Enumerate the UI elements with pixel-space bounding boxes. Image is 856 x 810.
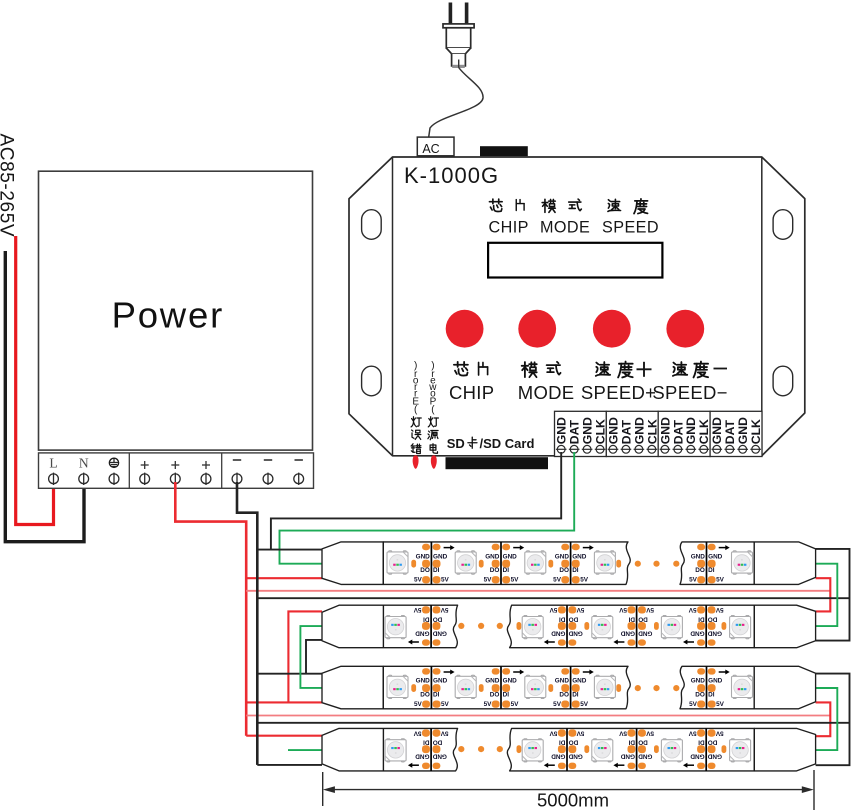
- svg-text:DAT: DAT: [568, 420, 582, 445]
- svg-text:GND: GND: [555, 417, 569, 444]
- LED strip row 1: [322, 542, 816, 585]
- LED strip row 3: [322, 666, 816, 709]
- svg-text:CHIP: CHIP: [489, 218, 529, 236]
- wire GND bus rows1-2: [257, 597, 849, 599]
- svg-text:SPEED−: SPEED−: [652, 382, 727, 403]
- SD card slot (black): [446, 457, 549, 469]
- svg-text:SPEED: SPEED: [602, 218, 659, 236]
- wire controller GND (black) to strip row 1: [271, 452, 561, 550]
- wire 5V bus rows3-4 to right end: [246, 715, 830, 717]
- svg-text:SPEED+: SPEED+: [581, 382, 656, 403]
- svg-text:L: L: [49, 456, 57, 471]
- svg-text:GND: GND: [658, 417, 672, 444]
- svg-text:GND: GND: [736, 417, 750, 444]
- svg-text:GND: GND: [632, 417, 646, 444]
- wire +5V feed from power supply (red): [175, 482, 246, 736]
- svg-text:K-1000G: K-1000G: [404, 163, 499, 188]
- red indicator LEDs: [413, 455, 419, 469]
- svg-text:/SD Card: /SD Card: [480, 436, 535, 451]
- wire data row4 DO stub (green): [288, 749, 322, 751]
- wire 5V right vertical rows1-2: [816, 578, 831, 611]
- svg-text:5000mm: 5000mm: [537, 790, 609, 810]
- wire GND row4 left: [257, 764, 322, 766]
- red push buttons: [446, 310, 484, 348]
- wire data row3 DO to row4 DI (right side, green): [816, 688, 838, 750]
- chinese header: chip mode speed: [489, 199, 502, 211]
- power cord from plug to AC inlet: [458, 60, 460, 68]
- wire 5V bus rows1-2 to right end: [246, 590, 830, 592]
- wire 5V row3 left: [246, 701, 322, 703]
- wire 5V row2 left: [288, 611, 322, 702]
- svg-text:MODE: MODE: [518, 382, 575, 403]
- LED strip row 4 (reversed): [322, 728, 816, 771]
- svg-text:GND: GND: [710, 417, 724, 444]
- wire AC live (red) from L terminal up left side: [16, 236, 54, 525]
- mains plug body: [443, 24, 474, 66]
- output terminal block 4 groups GND DAT GND CLK: [555, 411, 763, 456]
- dimension line 5000mm: [323, 770, 814, 810]
- svg-text:DAT: DAT: [723, 420, 737, 445]
- wire GND right loop rows3-4: [816, 674, 850, 766]
- wire GND row1 left: [257, 549, 322, 551]
- power screw terminals: [49, 473, 304, 485]
- label error LED (vertical): [411, 444, 421, 454]
- LED strip row 2 (reversed): [322, 605, 816, 648]
- svg-text:CLK: CLK: [645, 419, 659, 444]
- ground symbol (protective earth): [109, 458, 118, 467]
- wire GND row3 left: [257, 673, 322, 675]
- mains plug prong left: [449, 3, 453, 24]
- svg-text:DAT: DAT: [619, 420, 633, 445]
- svg-text:DAT: DAT: [671, 420, 685, 445]
- svg-text:AC: AC: [422, 142, 439, 156]
- svg-text:N: N: [79, 456, 89, 471]
- svg-text:MODE: MODE: [540, 218, 590, 236]
- power terminal strip: [39, 453, 314, 488]
- svg-text:CLK: CLK: [593, 419, 607, 444]
- wire AC neutral (black) from N terminal up far left: [5, 251, 84, 542]
- svg-text:GND: GND: [581, 417, 595, 444]
- wire GND bus rows3-4: [257, 722, 849, 724]
- wire 5V right vertical rows3-4: [816, 702, 831, 736]
- svg-text:Power: Power: [112, 295, 224, 336]
- wire controller DAT (green) to strip row 1 DI: [280, 452, 575, 564]
- op AC inlet box on controller: [417, 137, 454, 156]
- wire 5V row1 left: [246, 577, 322, 579]
- wire GND row2 left jog: [306, 640, 322, 674]
- chinese button labels: [454, 362, 468, 376]
- wire 5V row4 left: [246, 735, 322, 737]
- svg-text:CHIP: CHIP: [449, 382, 494, 403]
- svg-text:GND: GND: [684, 417, 698, 444]
- mains plug prong right: [465, 3, 469, 24]
- svg-text:CLK: CLK: [697, 419, 711, 444]
- wire data row2 DO to row3 DI (left side, green): [300, 626, 322, 688]
- mounting holes (ovals): [362, 210, 793, 396]
- wire data row1 DO to row2 DI (right side, green): [816, 564, 838, 626]
- svg-text:AC85-265V: AC85-265V: [0, 134, 17, 238]
- controller top slot (black): [480, 146, 528, 156]
- svg-text:SD: SD: [447, 436, 465, 451]
- svg-text:GND: GND: [606, 417, 620, 444]
- LCD display window: [488, 243, 662, 278]
- controller K-1000G chassis outline: [349, 157, 805, 456]
- wire GND feed from power supply (black): [237, 482, 257, 765]
- label power LED (vertical): [430, 444, 437, 453]
- svg-text:CLK: CLK: [749, 419, 763, 444]
- wire GND right loop rows1-2: [816, 549, 850, 641]
- power supply box "Power": [39, 171, 313, 450]
